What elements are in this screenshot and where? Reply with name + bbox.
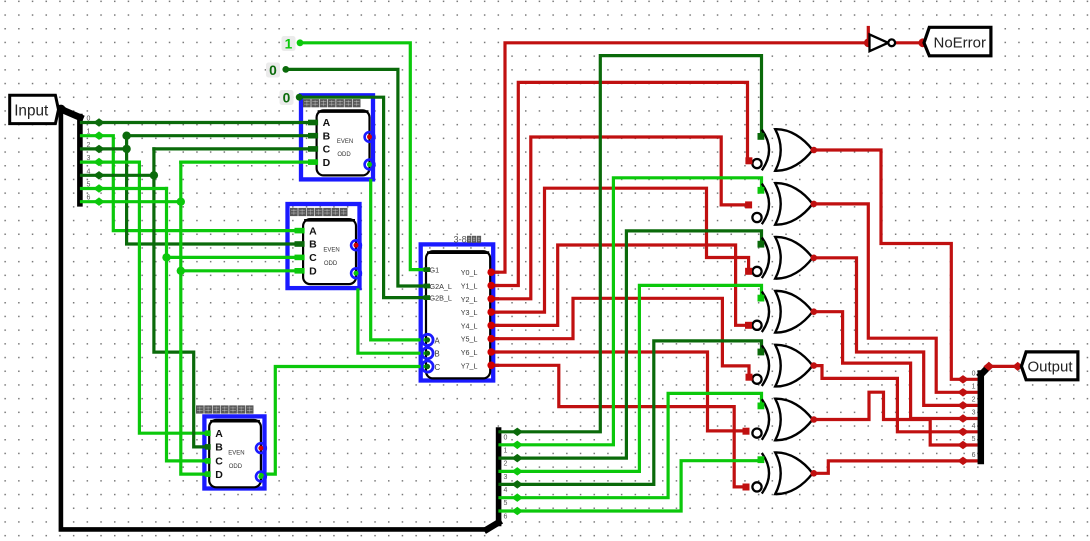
svg-text:D: D (309, 266, 317, 278)
svg-text:0: 0 (504, 434, 508, 441)
svg-text:5: 5 (972, 436, 976, 443)
svg-text:5: 5 (87, 182, 91, 189)
svg-text:B: B (215, 442, 223, 454)
svg-text:6: 6 (87, 195, 91, 202)
svg-text:Output: Output (1028, 359, 1074, 376)
svg-text:1: 1 (504, 447, 508, 454)
svg-text:C: C (215, 456, 223, 468)
svg-text:Y3_L: Y3_L (461, 308, 478, 317)
svg-text:C: C (435, 363, 441, 372)
svg-text:A: A (215, 428, 223, 440)
svg-text:Input: Input (14, 102, 49, 119)
svg-text:4: 4 (504, 487, 508, 494)
svg-text:EVEN: EVEN (323, 247, 339, 253)
svg-text:Y4_L: Y4_L (461, 321, 478, 330)
svg-text:Y7_L: Y7_L (461, 361, 478, 370)
svg-text:2: 2 (87, 142, 91, 149)
svg-text:Y0_L: Y0_L (461, 268, 478, 277)
svg-text:3: 3 (972, 410, 976, 417)
svg-text:0: 0 (87, 116, 91, 123)
svg-text:2: 2 (504, 461, 508, 468)
svg-text:4: 4 (972, 423, 976, 430)
svg-text:6: 6 (972, 452, 976, 459)
svg-text:B: B (435, 350, 440, 359)
svg-text:3-8: 3-8 (454, 235, 467, 245)
svg-text:ODD: ODD (229, 464, 243, 470)
svg-text:Y2_L: Y2_L (461, 295, 478, 304)
svg-text:Y5_L: Y5_L (461, 335, 478, 344)
svg-text:B: B (323, 130, 331, 142)
svg-text:A: A (435, 336, 441, 345)
svg-text:B: B (309, 239, 317, 251)
svg-text:1: 1 (285, 36, 293, 51)
svg-text:3: 3 (504, 474, 508, 481)
svg-text:6: 6 (504, 514, 508, 521)
svg-text:NoError: NoError (934, 35, 987, 52)
svg-text:EVEN: EVEN (337, 139, 353, 145)
svg-text:0: 0 (972, 370, 976, 377)
svg-text:ODD: ODD (337, 152, 351, 158)
svg-text:1: 1 (972, 383, 976, 390)
svg-text:2: 2 (972, 396, 976, 403)
svg-text:G2B_L: G2B_L (430, 294, 452, 303)
svg-text:D: D (323, 157, 331, 169)
svg-text:0: 0 (283, 90, 291, 105)
svg-text:Y1_L: Y1_L (461, 282, 478, 291)
svg-text:C: C (309, 252, 317, 264)
svg-text:1: 1 (87, 129, 91, 136)
svg-text:A: A (323, 117, 331, 129)
svg-text:G1: G1 (430, 266, 440, 275)
svg-text:C: C (323, 144, 331, 156)
svg-text:D: D (215, 469, 223, 481)
svg-text:Y6_L: Y6_L (461, 348, 478, 357)
svg-text:4: 4 (87, 168, 91, 175)
svg-text:5: 5 (504, 500, 508, 507)
svg-text:ODD: ODD (324, 261, 338, 267)
svg-text:0: 0 (269, 63, 277, 78)
svg-text:3: 3 (87, 155, 91, 162)
svg-text:EVEN: EVEN (228, 450, 244, 456)
svg-text:A: A (309, 225, 317, 237)
svg-text:G2A_L: G2A_L (430, 282, 452, 291)
